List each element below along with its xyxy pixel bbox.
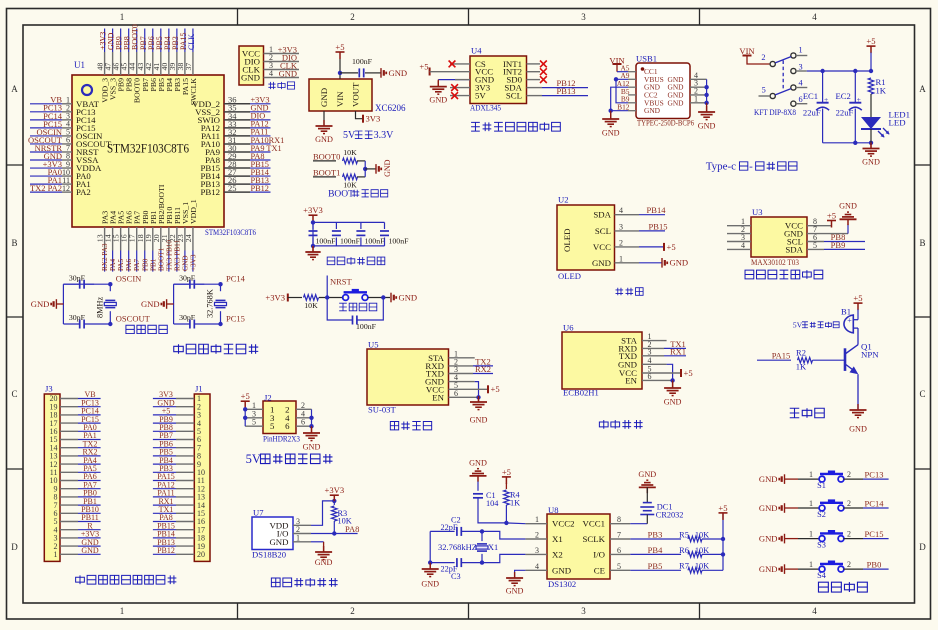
- svg-text:10K: 10K: [695, 562, 709, 571]
- svg-text:5: 5: [762, 85, 766, 94]
- svg-text:PB12: PB12: [157, 546, 175, 555]
- svg-text:4: 4: [269, 69, 273, 78]
- svg-text:U3: U3: [752, 207, 763, 217]
- svg-text:GND: GND: [315, 135, 333, 144]
- svg-text:DS1302: DS1302: [548, 579, 576, 589]
- svg-text:8: 8: [617, 515, 621, 524]
- svg-text:B: B: [919, 238, 925, 248]
- svg-text:MAX30102 T03: MAX30102 T03: [751, 257, 799, 267]
- svg-text:RX2: RX2: [475, 364, 491, 374]
- svg-text:KFT DIP-8X8: KFT DIP-8X8: [754, 107, 796, 117]
- svg-text:R7: R7: [679, 562, 689, 571]
- svg-text:VOUT: VOUT: [351, 82, 361, 107]
- svg-text:X1: X1: [488, 543, 498, 552]
- svg-text:GND: GND: [399, 292, 418, 302]
- svg-text:3: 3: [535, 546, 539, 555]
- svg-text:30pF: 30pF: [179, 273, 196, 282]
- svg-text:1: 1: [120, 606, 125, 616]
- svg-text:100nF: 100nF: [365, 236, 386, 245]
- svg-text:PB13: PB13: [557, 86, 576, 96]
- svg-text:2: 2: [535, 531, 539, 540]
- svg-text:5: 5: [270, 421, 275, 431]
- svg-text:10K: 10K: [343, 181, 357, 190]
- svg-text:4: 4: [535, 562, 539, 571]
- svg-text:6: 6: [301, 418, 305, 427]
- svg-text:GND: GND: [664, 397, 682, 406]
- svg-text:SCL: SCL: [506, 91, 522, 101]
- svg-text:1: 1: [619, 254, 623, 263]
- svg-text:TX3 PB10: TX3 PB10: [165, 240, 173, 271]
- svg-text:PB0: PB0: [141, 258, 149, 271]
- svg-text:C3: C3: [451, 572, 461, 581]
- svg-text:6: 6: [454, 389, 458, 398]
- svg-text:3: 3: [581, 12, 586, 22]
- svg-text:100nF: 100nF: [352, 57, 373, 66]
- svg-text:VCC2: VCC2: [552, 519, 575, 529]
- svg-text:OSCOUT: OSCOUT: [116, 313, 151, 323]
- svg-text:+3V3: +3V3: [189, 254, 197, 271]
- svg-text:EN: EN: [625, 375, 637, 385]
- svg-text:+3V3: +3V3: [324, 485, 344, 495]
- svg-text:22pF: 22pF: [440, 523, 457, 532]
- svg-text:PB12: PB12: [251, 184, 269, 193]
- svg-text:5: 5: [813, 241, 817, 250]
- svg-text:+5: +5: [718, 503, 727, 513]
- svg-text:GND: GND: [849, 424, 867, 433]
- svg-text:GND: GND: [383, 159, 392, 177]
- svg-text:PB5: PB5: [648, 561, 663, 571]
- svg-text:GND: GND: [670, 258, 689, 268]
- svg-text:TYPEC-250D-BCP6: TYPEC-250D-BCP6: [637, 117, 695, 127]
- svg-text:GND: GND: [862, 157, 880, 166]
- svg-text:XC6206: XC6206: [375, 103, 406, 113]
- svg-text:24: 24: [184, 234, 193, 242]
- svg-text:5V: 5V: [475, 91, 486, 101]
- svg-text:5V: 5V: [793, 320, 803, 329]
- svg-text:100nF: 100nF: [340, 236, 361, 245]
- svg-text:S4: S4: [817, 571, 827, 580]
- svg-text:U4: U4: [471, 45, 482, 55]
- svg-text:SWCLK: SWCLK: [189, 78, 198, 106]
- svg-text:OSCIN: OSCIN: [116, 274, 142, 284]
- svg-text:ECB02H1: ECB02H1: [563, 387, 599, 397]
- svg-text:4: 4: [812, 606, 817, 616]
- svg-text:GND: GND: [31, 299, 50, 309]
- svg-text:A: A: [11, 84, 18, 94]
- svg-text:GND: GND: [506, 586, 524, 595]
- svg-text:GND: GND: [469, 458, 487, 467]
- svg-text:R2: R2: [796, 347, 806, 357]
- svg-text:4: 4: [812, 12, 817, 22]
- svg-text:100nF: 100nF: [356, 322, 377, 331]
- svg-text:PB0: PB0: [867, 559, 882, 569]
- svg-text:1: 1: [809, 530, 813, 539]
- svg-text:GND: GND: [839, 202, 857, 211]
- svg-text:PB9: PB9: [831, 240, 846, 250]
- svg-text:PC15: PC15: [226, 313, 245, 323]
- svg-text:RX1: RX1: [670, 346, 686, 356]
- svg-text:4: 4: [619, 206, 623, 215]
- svg-text:+3V3: +3V3: [265, 292, 285, 302]
- svg-text:J3: J3: [45, 383, 53, 393]
- svg-text:B1: B1: [841, 306, 851, 316]
- svg-text:CR2032: CR2032: [656, 511, 684, 520]
- svg-text:PA15: PA15: [772, 350, 791, 360]
- svg-text:+5: +5: [853, 293, 862, 303]
- svg-text:U7: U7: [253, 507, 264, 517]
- svg-text:GND: GND: [667, 98, 684, 107]
- svg-text:GND: GND: [319, 88, 329, 107]
- svg-text:5: 5: [252, 418, 256, 427]
- svg-text:PB1: PB1: [149, 258, 157, 271]
- svg-text:+5: +5: [241, 391, 250, 401]
- svg-text:22uF: 22uF: [803, 107, 821, 117]
- svg-text:GND: GND: [759, 534, 778, 544]
- svg-text:U5: U5: [368, 339, 379, 349]
- svg-text:J2: J2: [264, 392, 272, 402]
- svg-text:GND: GND: [241, 72, 260, 82]
- svg-text:1: 1: [799, 46, 803, 55]
- svg-text:30pF: 30pF: [69, 273, 86, 282]
- svg-text:30pF: 30pF: [69, 313, 86, 322]
- svg-text:RX3 PB11: RX3 PB11: [173, 240, 181, 271]
- svg-text:GND: GND: [644, 106, 661, 115]
- svg-text:GND: GND: [698, 121, 716, 130]
- svg-text:104: 104: [486, 499, 499, 508]
- svg-text:37: 37: [184, 63, 193, 71]
- svg-text:1K: 1K: [796, 361, 807, 371]
- svg-text:+5: +5: [491, 384, 500, 394]
- svg-text:SDA: SDA: [593, 210, 611, 220]
- svg-text:R6: R6: [679, 546, 689, 555]
- svg-text:U8: U8: [548, 505, 559, 515]
- svg-text:STM32F103C8T6: STM32F103C8T6: [107, 140, 189, 155]
- svg-text:PA7: PA7: [133, 258, 141, 271]
- svg-text:1K: 1K: [876, 85, 887, 95]
- svg-text:+: +: [857, 95, 861, 104]
- svg-text:A: A: [919, 84, 926, 94]
- svg-text:EN: EN: [432, 392, 444, 402]
- svg-text:GND: GND: [470, 415, 488, 424]
- svg-text:U1: U1: [74, 60, 85, 70]
- svg-text:X1: X1: [552, 534, 563, 544]
- svg-text:I/O: I/O: [593, 549, 605, 559]
- svg-text:S1: S1: [817, 481, 826, 490]
- svg-text:GND: GND: [638, 470, 656, 479]
- svg-text:6: 6: [617, 546, 621, 555]
- svg-text:BOOT1: BOOT1: [313, 168, 340, 178]
- svg-text:GND: GND: [759, 564, 778, 574]
- svg-text:SDA: SDA: [785, 244, 803, 254]
- svg-text:VIN: VIN: [739, 46, 755, 56]
- svg-text:C: C: [919, 389, 925, 399]
- svg-text:PA2: PA2: [76, 187, 91, 197]
- svg-text:3.3V: 3.3V: [374, 130, 395, 141]
- svg-text:CLK: CLK: [187, 34, 196, 50]
- svg-text:8MHz: 8MHz: [95, 296, 104, 318]
- svg-text:EC2: EC2: [836, 91, 851, 101]
- svg-text:2: 2: [350, 606, 355, 616]
- svg-text:2: 2: [847, 560, 851, 569]
- svg-text:GND: GND: [602, 128, 620, 137]
- svg-text:1: 1: [809, 499, 813, 508]
- svg-text:+: +: [824, 95, 828, 104]
- svg-text:CE: CE: [594, 565, 605, 575]
- svg-text:1: 1: [809, 560, 813, 569]
- svg-text:22uF: 22uF: [836, 107, 854, 117]
- svg-text:GND: GND: [303, 442, 321, 451]
- svg-text:10K: 10K: [304, 301, 318, 310]
- svg-text:32.768K: 32.768K: [206, 289, 215, 318]
- svg-text:PA8: PA8: [345, 524, 359, 534]
- svg-text:BOOT: BOOT: [328, 190, 354, 200]
- svg-text:1K: 1K: [510, 498, 520, 507]
- svg-text:PB14: PB14: [647, 205, 667, 215]
- svg-text:OLED: OLED: [562, 229, 572, 252]
- svg-text:12: 12: [62, 184, 70, 193]
- svg-text:GND: GND: [279, 68, 297, 78]
- svg-text:D: D: [11, 542, 18, 552]
- svg-text:PB3: PB3: [648, 529, 663, 539]
- svg-text:-: -: [749, 161, 753, 173]
- svg-text:BOOT0: BOOT0: [313, 152, 340, 162]
- svg-text:C: C: [11, 389, 17, 399]
- svg-text:GND: GND: [141, 299, 160, 309]
- svg-text:4: 4: [741, 241, 745, 250]
- svg-text:3: 3: [799, 62, 803, 71]
- svg-text:5V: 5V: [246, 452, 261, 466]
- svg-text:+: +: [847, 316, 852, 325]
- svg-text:VDD_1: VDD_1: [189, 199, 198, 224]
- svg-text:+5: +5: [419, 61, 428, 71]
- svg-text:+5: +5: [667, 242, 676, 252]
- svg-text:2: 2: [619, 238, 623, 247]
- svg-text:PA6: PA6: [125, 258, 133, 271]
- svg-text:10K: 10K: [343, 148, 357, 157]
- svg-text:1: 1: [120, 12, 125, 22]
- svg-text:PC15: PC15: [865, 529, 884, 539]
- svg-text:3: 3: [581, 606, 586, 616]
- svg-text:PB12: PB12: [200, 187, 220, 197]
- svg-text:1: 1: [296, 533, 300, 542]
- svg-text:VCC1: VCC1: [583, 519, 606, 529]
- svg-text:GND: GND: [421, 579, 439, 588]
- svg-text:STM32F103C8T6: STM32F103C8T6: [205, 227, 257, 237]
- svg-text:GND: GND: [759, 474, 778, 484]
- svg-text:+5: +5: [684, 368, 693, 378]
- svg-text:+5: +5: [827, 210, 836, 220]
- svg-text:ADXL345: ADXL345: [470, 102, 501, 112]
- svg-text:5: 5: [617, 562, 621, 571]
- svg-text:USB1: USB1: [636, 53, 657, 63]
- svg-text:VIN: VIN: [335, 91, 345, 107]
- svg-text:NRST: NRST: [330, 276, 353, 286]
- svg-text:GND: GND: [269, 537, 288, 547]
- svg-text:2: 2: [761, 53, 765, 62]
- svg-text:3V3: 3V3: [366, 114, 381, 124]
- svg-text:TX2 PA2: TX2 PA2: [30, 183, 62, 193]
- svg-text:30pF: 30pF: [179, 313, 196, 322]
- svg-text:25: 25: [228, 183, 237, 193]
- svg-text:GND: GND: [315, 558, 333, 567]
- svg-text:10K: 10K: [695, 546, 709, 555]
- svg-text:J1: J1: [195, 383, 203, 393]
- svg-text:1: 1: [54, 550, 58, 559]
- svg-text:5V: 5V: [343, 130, 356, 141]
- svg-text:PA5: PA5: [117, 258, 125, 271]
- svg-text:SU-03T: SU-03T: [368, 404, 396, 414]
- svg-text:+5: +5: [866, 36, 875, 46]
- svg-text:3: 3: [619, 222, 623, 231]
- svg-text:GND: GND: [429, 95, 447, 104]
- svg-text:PB15: PB15: [649, 221, 668, 231]
- svg-text:BOOT1: BOOT1: [157, 247, 165, 271]
- svg-text:PC13: PC13: [865, 469, 884, 479]
- svg-text:PB4: PB4: [648, 545, 663, 555]
- svg-text:EC1: EC1: [803, 91, 818, 101]
- svg-text:PinHDR2X3: PinHDR2X3: [263, 433, 300, 443]
- svg-text:1: 1: [694, 94, 698, 103]
- svg-text:100nF: 100nF: [389, 236, 410, 245]
- svg-text:2: 2: [847, 530, 851, 539]
- svg-text:+5: +5: [502, 467, 511, 477]
- svg-text:GND: GND: [81, 546, 99, 555]
- svg-text:GND: GND: [552, 565, 571, 575]
- svg-text:S3: S3: [817, 541, 826, 550]
- svg-text:7: 7: [617, 531, 621, 540]
- svg-text:PC14: PC14: [865, 498, 885, 508]
- svg-text:LED: LED: [889, 117, 906, 127]
- svg-text:20: 20: [197, 550, 205, 559]
- svg-text:10K: 10K: [695, 530, 709, 539]
- svg-text:GND: GND: [181, 255, 189, 271]
- svg-text:NPN: NPN: [861, 349, 879, 359]
- svg-text:1: 1: [535, 515, 539, 524]
- svg-text:X2: X2: [552, 549, 563, 559]
- svg-text:6: 6: [285, 421, 290, 431]
- svg-text:2: 2: [350, 12, 355, 22]
- svg-text:U2: U2: [558, 194, 569, 204]
- svg-text:SCL: SCL: [595, 226, 611, 236]
- svg-text:GND: GND: [759, 503, 778, 513]
- svg-text:2: 2: [847, 470, 851, 479]
- svg-text:+3V3: +3V3: [303, 205, 323, 215]
- svg-text:DS18B20: DS18B20: [252, 549, 286, 559]
- svg-text:PA4: PA4: [109, 258, 117, 271]
- svg-text:GND: GND: [592, 258, 611, 268]
- svg-text:4: 4: [648, 356, 652, 365]
- svg-text:SCLK: SCLK: [583, 534, 606, 544]
- svg-text:R5: R5: [679, 530, 689, 539]
- svg-text:+5: +5: [335, 42, 344, 52]
- svg-text:U6: U6: [563, 322, 574, 332]
- svg-text:RX2 PA3: RX2 PA3: [101, 243, 109, 271]
- svg-text:VCC: VCC: [593, 242, 611, 252]
- svg-text:D: D: [919, 542, 926, 552]
- svg-text:S2: S2: [817, 510, 826, 519]
- svg-text:100nF: 100nF: [316, 236, 337, 245]
- svg-text:1: 1: [809, 470, 813, 479]
- svg-text:32.768kHZ: 32.768kHZ: [438, 543, 477, 552]
- svg-text:PC14: PC14: [226, 274, 246, 284]
- svg-text:OLED: OLED: [558, 271, 581, 281]
- svg-text:GND: GND: [389, 68, 408, 78]
- svg-text:2: 2: [847, 499, 851, 508]
- svg-text:B: B: [11, 238, 17, 248]
- svg-text:Type-c: Type-c: [706, 161, 736, 173]
